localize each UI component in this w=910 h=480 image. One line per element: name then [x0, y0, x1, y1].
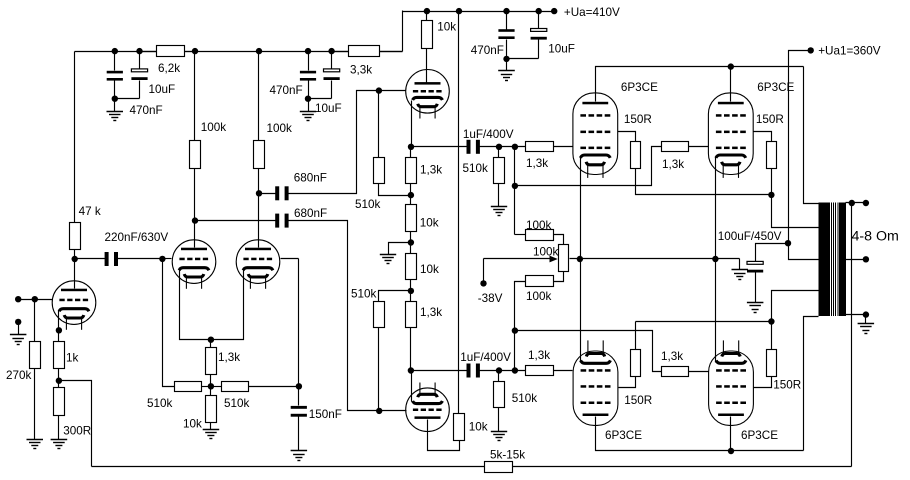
resistor 1,3k (grid stopper UR) [662, 142, 689, 152]
resistor 1,3k (cathode) [206, 348, 217, 375]
svg-text:-38V: -38V [478, 292, 503, 305]
wire to V7 grid [689, 146, 709, 148]
resistor 10k (V5 anode load) [454, 414, 465, 441]
wire V2 grid to 510k [163, 259, 175, 387]
resistor 150R (UR screen) [754, 132, 772, 142]
resistor 150R (UL screen) [618, 132, 636, 142]
ground (secondary) [858, 323, 875, 325]
svg-text:510k: 510k [224, 397, 250, 410]
node input-270k [32, 296, 38, 302]
wire C5-C6 join [507, 58, 539, 60]
wire to ground [498, 408, 500, 432]
node rail-C1 [112, 48, 118, 54]
svg-text:+Ua=410V: +Ua=410V [564, 6, 620, 19]
node feedback tap [849, 200, 855, 206]
wire C1 top stub [114, 52, 116, 71]
svg-text:10k: 10k [420, 263, 439, 276]
wire feedback to output [513, 466, 852, 468]
node bias upper [512, 144, 518, 150]
resistor 100k (bias lower) [526, 276, 554, 287]
resistor 1,3k (grid stopper LR) [662, 367, 689, 377]
wire primary top tap [804, 67, 819, 204]
wire C3 bottom stub [308, 81, 310, 99]
resistor 300R [54, 388, 65, 416]
+Ua supply rail y=11 [403, 11, 555, 13]
node right cathodes [712, 256, 718, 262]
ground (C3/C4) [300, 111, 316, 113]
svg-text:10uF: 10uF [548, 42, 575, 55]
node bias lower [512, 367, 518, 373]
wire to ground [308, 99, 310, 112]
wire V5 anode [428, 420, 460, 451]
wire rail riser x=402.5 [402, 11, 404, 52]
resistor 47k [74, 52, 76, 223]
terminal +Ua [551, 8, 557, 14]
svg-text:10k: 10k [469, 421, 488, 434]
wire to 510k (V5 grid) [379, 291, 411, 302]
node C1-C2 join [112, 96, 118, 102]
svg-text:100k: 100k [533, 245, 559, 258]
svg-text:100k: 100k [201, 121, 227, 134]
node rail-10k [424, 8, 430, 14]
node left cathodes [577, 256, 583, 262]
capacitor 1uF/400V (lower) [467, 364, 471, 378]
node V3 anode tap [256, 190, 262, 196]
resistor 10k (V4 anode load) [426, 12, 428, 21]
svg-text:10k: 10k [183, 417, 202, 430]
ground (lower 510k) [491, 431, 507, 433]
wire secondary mid tap [846, 259, 866, 261]
wire 100k to pot top [554, 235, 564, 245]
ground (100uF) [747, 302, 764, 304]
wire C4 bottom stub [331, 81, 333, 99]
transformer primary winding [819, 203, 831, 317]
node V3 grid divider [296, 383, 302, 389]
resistor 510k (right) [222, 382, 249, 392]
node screen bus lower [768, 318, 774, 324]
svg-text:1k: 1k [66, 351, 79, 364]
node upper grid bus [512, 183, 518, 189]
wire 1k to 300R [58, 369, 60, 381]
node rail-C4 [328, 48, 334, 54]
wire pot bottom to 100k [554, 272, 564, 282]
resistor 150R (LR screen) [771, 322, 773, 350]
terminal output mid [863, 256, 869, 262]
capacitor 470nF (driver supply) [498, 29, 514, 32]
svg-text:10k: 10k [437, 20, 456, 33]
wire 680nF to V5 grid [289, 221, 407, 411]
resistor 510k (V5 grid) [374, 302, 385, 328]
svg-text:1,3k: 1,3k [528, 349, 550, 362]
node screen bus upper [768, 192, 774, 198]
beam tetrode V8 6P3CE (lower left) [573, 351, 618, 425]
triode V4 (upper driver) [406, 70, 450, 119]
svg-text:6,2k: 6,2k [158, 62, 180, 75]
svg-text:150R: 150R [624, 113, 652, 126]
wire V3 anode [258, 169, 260, 248]
svg-text:6P3CE: 6P3CE [621, 81, 658, 94]
wire lower screens to LL tap [772, 291, 819, 322]
node V5 grid [376, 408, 382, 414]
svg-text:1,3k: 1,3k [526, 157, 548, 170]
capacitor 10uF electrolytic (input stage) [131, 69, 147, 72]
svg-text:100k: 100k [526, 219, 552, 232]
wire 300R to ground [58, 416, 60, 440]
wire lower grid bus to LR stopper [515, 331, 662, 372]
triode V5 (lower driver) [406, 383, 450, 432]
svg-text:220nF/630V: 220nF/630V [105, 231, 169, 244]
wire to V6 grid [554, 146, 573, 148]
wire V3 grid to 510k [281, 258, 299, 260]
svg-text:510k: 510k [355, 198, 381, 211]
svg-text:1,3k: 1,3k [218, 351, 240, 364]
ground (C5/C6) [498, 70, 515, 72]
wire upper screens to UL tap [772, 195, 819, 228]
wire to ground [114, 99, 116, 112]
wire UL screen to bus [636, 169, 772, 195]
svg-text:100k: 100k [526, 290, 552, 303]
resistor 1,3k (V5 cathode) [406, 302, 417, 328]
wire 220nF to V2 grid [118, 258, 163, 260]
wire C5 top stub [506, 12, 508, 30]
input ground terminal [15, 319, 21, 325]
node rail-C6 [536, 8, 542, 14]
ground (C1/C2) [107, 111, 124, 113]
capacitor 680nF (upper) [275, 186, 279, 200]
node lower grid bus [512, 327, 518, 333]
wire V4 cathode out [411, 146, 469, 148]
wire to V4 anode [426, 49, 428, 83]
svg-text:10uF: 10uF [315, 102, 342, 115]
capacitor 10uF electrolytic (driver supply) [531, 29, 547, 32]
terminal output top [863, 200, 869, 206]
wire primary bottom tap [804, 317, 819, 451]
wire 150nF to ground [298, 417, 300, 451]
ground (10k divider) [203, 429, 220, 431]
resistor 510k (lower grid leak) [498, 371, 500, 382]
node V1 cathode [56, 327, 62, 333]
capacitor 470nF (second stage) [300, 71, 316, 74]
beam tetrode V7 6P3CE (upper right) [708, 93, 753, 175]
wire to ground [506, 59, 508, 71]
wire V2 anode to 680nF [195, 220, 276, 222]
svg-text:4-8 Om: 4-8 Om [852, 228, 899, 244]
wire 1,3k to V5 cathode node [410, 328, 412, 371]
svg-text:6P3CE: 6P3CE [741, 429, 778, 442]
wire input gnd [18, 322, 20, 335]
svg-text:470nF: 470nF [270, 84, 303, 97]
wire to ground [498, 184, 500, 207]
wire C6 bottom stub [538, 40, 540, 59]
node V4 divider 1 [408, 192, 414, 198]
node V5 cathode [408, 367, 414, 373]
wire C6 top stub [538, 12, 540, 29]
wire lower screen bus [636, 321, 772, 323]
wire 270k to ground [34, 369, 36, 440]
svg-text:680nF: 680nF [294, 172, 327, 185]
svg-text:300R: 300R [63, 424, 91, 437]
wire C2 top stub [139, 52, 141, 69]
potentiometer 100k [559, 245, 569, 272]
node rail-R100k1 [192, 48, 198, 54]
wire upper bias riser [514, 147, 516, 235]
node rail-longvert [456, 8, 462, 14]
svg-text:1uF/400V: 1uF/400V [460, 351, 511, 364]
terminal +Ua1 [808, 47, 814, 53]
ground (150nF) [291, 450, 308, 452]
node cathodes [208, 337, 214, 343]
wire to 150nF [298, 387, 300, 406]
wire C3-C4 join [309, 98, 332, 100]
wire V5 cathode tail [411, 371, 413, 402]
triode V2 [172, 240, 216, 289]
wire cathode tails right [715, 158, 717, 363]
wire V7 anode pin [730, 67, 732, 102]
svg-text:1,3k: 1,3k [420, 306, 442, 319]
node V4 grid [376, 87, 382, 93]
wire feedback takeoff [59, 381, 92, 467]
wire V4 cathode tail [411, 101, 413, 147]
wire anode bus lower y=451 [596, 417, 804, 451]
resistor 1,3k (grid stopper UL) [526, 142, 554, 152]
node V7 anode [728, 63, 734, 69]
capacitor 150nF [291, 406, 307, 409]
capacitor 100uF/450V [747, 261, 763, 264]
node +Ua1 cap [785, 240, 791, 246]
svg-text:+Ua1=360V: +Ua1=360V [818, 45, 881, 58]
node rail-R100k2 [256, 48, 262, 54]
top supply rail y=51 [75, 51, 403, 53]
wire cathode ground bus [570, 258, 740, 260]
svg-text:510k: 510k [351, 287, 377, 300]
wire 510k to V5 grid node [378, 328, 380, 411]
svg-text:10uF: 10uF [149, 83, 176, 96]
terminal output bottom [863, 311, 869, 317]
wire to ground [389, 243, 411, 255]
beam tetrode V6 6P3CE (upper left) [573, 93, 618, 175]
svg-text:6P3CE: 6P3CE [605, 429, 642, 442]
node V9 anode [728, 448, 734, 454]
input terminal [15, 296, 21, 302]
svg-text:150R: 150R [756, 113, 784, 126]
wire feedback riser [851, 203, 853, 467]
wire C1-C2 join [115, 98, 140, 100]
node V1 anode / 220nF [72, 256, 78, 262]
svg-text:1uF/400V: 1uF/400V [463, 128, 514, 141]
resistor 510k (left) [175, 382, 202, 392]
wire V5 cathode out [411, 370, 469, 372]
resistor 6,2k [140, 51, 157, 53]
wire to V2 grid [163, 258, 172, 260]
svg-text:680nF: 680nF [294, 207, 327, 220]
capacitor 680nF (lower) [275, 214, 279, 228]
node rail-C5 [503, 8, 509, 14]
node tail divider [208, 383, 214, 389]
wire upper grid bus to UR stopper [515, 147, 662, 186]
svg-text:47 k: 47 k [79, 205, 101, 218]
node C3-C4 join [305, 96, 311, 102]
resistor 10k (divider) [206, 396, 217, 423]
wire 100uF top to +Ua1 [756, 244, 789, 262]
wire secondary top tap [846, 202, 866, 204]
svg-text:1,3k: 1,3k [661, 350, 683, 363]
resistor 150R (LL screen) [635, 322, 637, 350]
ground (input) [10, 334, 27, 336]
svg-text:100uF/450V: 100uF/450V [718, 230, 782, 243]
svg-text:5k-15k: 5k-15k [490, 449, 525, 462]
ground (upper 510k) [491, 206, 507, 208]
svg-text:3,3k: 3,3k [350, 63, 372, 76]
resistor 100k (V3 anode load) [258, 52, 260, 141]
node 510k upper [496, 144, 502, 150]
svg-text:1,3k: 1,3k [420, 163, 442, 176]
wire -38V stub [483, 259, 485, 284]
wire to V9 grid [689, 371, 709, 373]
wire V3 anode to 680nF [259, 193, 276, 195]
wire to output grids lower [479, 370, 526, 372]
node V2 grid [159, 256, 165, 262]
wire input to grid [19, 299, 53, 301]
resistor 510k (upper grid leak) [498, 147, 500, 158]
resistor 5k-15k [485, 462, 513, 473]
resistor 100k (V2 anode load) [194, 52, 196, 141]
node V4 cathode [408, 144, 414, 150]
svg-text:470nF: 470nF [130, 104, 163, 117]
node V2 anode tap [192, 217, 198, 223]
svg-text:100k: 100k [267, 122, 293, 135]
wiper arrowhead [550, 256, 558, 263]
node rail-C3 [305, 48, 311, 54]
node C5-C6 join [503, 56, 509, 62]
wire anode bus upper y=66.6 [596, 67, 804, 102]
wire to V8 grid [554, 370, 573, 372]
capacitor 470nF (input stage) [107, 71, 123, 74]
wire +Ua to V5 10k [458, 12, 460, 414]
svg-text:510k: 510k [463, 162, 489, 175]
svg-text:10k: 10k [420, 217, 439, 230]
resistor 10k (divider a) [406, 205, 417, 232]
transformer core [832, 203, 838, 317]
wire anode to 220nF [75, 258, 106, 260]
wire 510k bottom to node [379, 184, 411, 196]
wire secondary bottom tap [846, 314, 866, 316]
transformer secondary winding [839, 203, 846, 317]
wire 47k to anode node [74, 250, 76, 259]
wire to 270k [34, 300, 36, 342]
svg-text:510k: 510k [512, 392, 538, 405]
wire V2 anode [194, 169, 196, 248]
node rail-C2 [136, 48, 142, 54]
ground (270k) [27, 439, 44, 441]
ground (divider) [380, 254, 396, 256]
wire lower bias riser [515, 282, 526, 331]
ground (300R) [51, 439, 68, 441]
capacitor 10uF electrolytic (second stage) [324, 69, 340, 72]
wire 100uF to ground [755, 273, 757, 303]
terminal -38V [480, 280, 486, 286]
wire C5 bottom stub [506, 40, 508, 59]
wire to output grids [479, 146, 526, 148]
wire V9 anode pin [730, 417, 732, 451]
wire feedback line [92, 466, 485, 468]
wire C2 bottom stub [139, 81, 141, 99]
svg-text:470nF: 470nF [471, 44, 504, 57]
resistor 3,3k [332, 51, 349, 53]
node divider ground tap [408, 239, 414, 245]
resistor 100k (bias upper) [515, 234, 526, 236]
node V5 divider [408, 288, 414, 294]
ground (cathode bus) [732, 269, 749, 271]
capacitor 1uF/400V (upper) [467, 140, 471, 154]
wire V2/V3 cathode U [180, 268, 244, 340]
wire -38V wiper [484, 258, 551, 260]
resistor 270k [30, 342, 41, 369]
svg-text:1,3k: 1,3k [662, 158, 684, 171]
resistor 1k [54, 342, 65, 369]
resistor 1,3k (grid stopper LL) [526, 366, 554, 376]
resistor 510k (V4 grid) [378, 91, 380, 158]
wire C1 bottom stub [114, 81, 116, 99]
capacitor 220nF/630V [105, 252, 109, 266]
wire 680nF to V4 grid [289, 91, 379, 194]
wire cathode tails left [580, 158, 582, 363]
svg-text:150R: 150R [624, 394, 652, 407]
resistor 10k (divider b) [406, 254, 417, 280]
wire V1 cathode tail [58, 311, 60, 331]
triode V3 [236, 240, 280, 289]
triode V1 (input) [52, 281, 96, 330]
svg-text:270k: 270k [6, 369, 32, 382]
node 1k-300R feedback [56, 378, 62, 384]
wire C4 top stub [331, 52, 333, 69]
wire C3 top stub [308, 52, 310, 71]
svg-text:150R: 150R [773, 379, 801, 392]
node 510k lower [496, 367, 502, 373]
svg-text:510k: 510k [147, 397, 173, 410]
wire V1 anode pin [74, 259, 76, 289]
beam tetrode V9 6P3CE (lower right) [709, 351, 754, 425]
resistor 1,3k (V4 cathode) [410, 147, 412, 158]
svg-text:150nF: 150nF [309, 408, 342, 421]
